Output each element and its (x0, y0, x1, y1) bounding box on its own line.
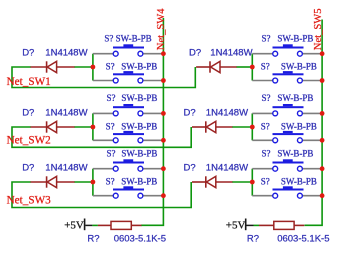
wire Net_SW3 left segment (12, 182, 191, 208)
wire row3 left diode to bracket (75, 181, 93, 183)
net label Net_SW1 (7, 76, 51, 88)
switch S? row2 right upper pin wires (252, 112, 322, 114)
label S? SW-B-PB row1 left upper (104, 33, 151, 43)
wire +5V to resistor left (85, 224, 98, 226)
svg-text:S?: S? (106, 121, 115, 131)
svg-text:SW-B-PB: SW-B-PB (277, 33, 313, 43)
switch S? row2 right upper (SW-B-PB) (273, 104, 304, 116)
svg-text:S?: S? (106, 177, 115, 187)
label D? row1 left (22, 47, 34, 58)
switch S? row2 right lower (SW-B-PB) (273, 131, 304, 143)
switch S? row2 left upper pin wires (93, 112, 163, 114)
switch S? row2 right lower pin wires (252, 139, 322, 141)
wire Net_SW2 left segment (12, 127, 191, 147)
junction row1 left lower on rail (161, 78, 166, 83)
switch S? row3 left upper pin wires (93, 168, 163, 170)
switch S? row1 right lower (SW-B-PB) (273, 71, 304, 83)
svg-text:D?: D? (22, 107, 34, 118)
value 1N4148W row2 right (206, 107, 248, 118)
label S? SW-B-PB row3 left lower (106, 177, 158, 187)
svg-text:S?: S? (261, 62, 270, 72)
svg-text:SW-B-PB: SW-B-PB (277, 93, 313, 103)
switch S? row1 right upper pin wires (252, 53, 322, 55)
switch S? row1 left upper (SW-B-PB) (113, 44, 144, 56)
junction row2 left bracket (91, 125, 96, 130)
diode D? row2 right pin wires (192, 126, 233, 128)
switch S? row3 right lower (SW-B-PB) (273, 186, 304, 198)
wire row2 right bracket vertical (251, 113, 253, 140)
svg-text:SW-B-PB: SW-B-PB (281, 177, 317, 187)
label D? row3 right (184, 162, 196, 173)
svg-text:1N4148W: 1N4148W (45, 107, 87, 118)
svg-text:S?: S? (261, 177, 270, 187)
label S? SW-B-PB row3 left upper (107, 148, 158, 158)
resistor R? right pin wires (259, 224, 304, 226)
svg-text:D?: D? (22, 47, 34, 58)
label D? row2 right (184, 107, 196, 118)
wire row1 left diode to bracket (75, 66, 93, 68)
label D? row3 left (22, 162, 34, 173)
label R? left (87, 233, 99, 244)
wire Net_SW1 left segment (12, 67, 195, 88)
wire row1 right diode to bracket (237, 66, 253, 68)
svg-text:SW-B-PB: SW-B-PB (281, 62, 317, 72)
svg-text:Net_SW5: Net_SW5 (313, 8, 324, 50)
junction row3 right upper on rail (320, 166, 325, 171)
svg-text:SW-B-PB: SW-B-PB (121, 148, 157, 158)
value 1N4148W row3 right (206, 162, 248, 173)
net label Net_SW3 (7, 194, 52, 206)
diode D? row3 left pin wires (31, 181, 75, 183)
junction row1 left upper on rail (161, 51, 166, 56)
svg-text:D?: D? (189, 47, 201, 58)
svg-text:SW-B-PB: SW-B-PB (121, 62, 157, 72)
junction row1 right upper on rail (320, 51, 325, 56)
svg-text:Net_SW2: Net_SW2 (7, 135, 51, 147)
label S? SW-B-PB row2 right upper (262, 93, 314, 103)
value 1N4148W row1 left (45, 47, 87, 58)
switch S? row3 right upper (SW-B-PB) (273, 159, 304, 171)
value 1N4148W row3 left (45, 162, 87, 173)
value 0603-5.1K-5 left (114, 233, 166, 244)
power port +5V right (226, 219, 246, 232)
svg-text:S?: S? (106, 62, 115, 72)
label S? SW-B-PB row2 left upper (107, 93, 158, 103)
svg-text:D?: D? (22, 162, 34, 173)
junction row2 right upper on rail (320, 111, 325, 116)
value 1N4148W row1 right (210, 47, 252, 58)
svg-text:1N4148W: 1N4148W (45, 47, 87, 58)
svg-text:SW-B-PB: SW-B-PB (121, 93, 157, 103)
svg-text:S?: S? (262, 33, 271, 43)
svg-text:D?: D? (184, 162, 196, 173)
resistor R? right (0603-5.1K-5) (274, 221, 294, 229)
label S? SW-B-PB row3 right upper (262, 148, 314, 158)
diode D? row1 left (1N4148W) (47, 61, 57, 72)
switch S? row3 left lower (SW-B-PB) (113, 186, 144, 198)
svg-text:Net_SW3: Net_SW3 (7, 194, 52, 206)
svg-text:S?: S? (107, 148, 116, 158)
svg-text:S?: S? (107, 93, 116, 103)
diode D? row1 right (1N4148W) (210, 61, 220, 72)
junction row2 left upper on rail (161, 111, 166, 116)
wire net Net_SW4 vertical rail (141, 18, 163, 225)
wire row3 right diode to bracket (232, 181, 252, 183)
label S? SW-B-PB row2 left lower (106, 121, 158, 131)
diode D? row3 right (1N4148W) (206, 176, 216, 187)
wire row2 left bracket vertical (92, 113, 94, 140)
switch S? row2 left upper (SW-B-PB) (113, 104, 144, 116)
svg-text:1N4148W: 1N4148W (210, 47, 252, 58)
diode D? row3 left (1N4148W) (47, 176, 57, 187)
wire +5V to resistor right (247, 224, 260, 226)
junction row3 left lower on rail (161, 193, 166, 198)
net label Net_SW2 (7, 135, 51, 147)
wire row1 left bracket vertical (92, 54, 94, 81)
svg-text:S? SW-B-PB: S? SW-B-PB (104, 33, 151, 43)
svg-text:SW-B-PB: SW-B-PB (277, 148, 313, 158)
switch S? row1 left lower (SW-B-PB) (113, 71, 144, 83)
svg-text:0603-5.1K-5: 0603-5.1K-5 (114, 233, 166, 244)
junction row1 right lower on rail (320, 78, 325, 83)
wire row3 left bracket vertical (92, 169, 94, 196)
label D? row2 left (22, 107, 34, 118)
wire row1 right bracket vertical (251, 54, 253, 81)
svg-text:S?: S? (261, 121, 270, 131)
label S? SW-B-PB row1 right upper (262, 33, 314, 43)
svg-text:SW-B-PB: SW-B-PB (121, 121, 157, 131)
junction row1 left bracket (91, 65, 96, 70)
svg-text:1N4148W: 1N4148W (45, 162, 87, 173)
diode D? row1 right pin wires (196, 66, 237, 68)
switch S? row2 left lower (SW-B-PB) (113, 131, 144, 143)
switch S? row3 right upper pin wires (252, 168, 322, 170)
switch S? row3 right lower pin wires (252, 195, 322, 197)
svg-text:1N4148W: 1N4148W (206, 107, 248, 118)
junction row3 right bracket (250, 180, 255, 185)
svg-text:R?: R? (87, 233, 99, 244)
svg-text:D?: D? (184, 107, 196, 118)
wire row2 left diode to bracket (75, 126, 93, 128)
svg-text:+5V: +5V (226, 219, 246, 231)
power port +5V left (64, 219, 84, 232)
diode D? row2 right (1N4148W) (206, 121, 216, 132)
label S? SW-B-PB row1 left lower (106, 62, 158, 72)
resistor R? left pin wires (98, 224, 142, 226)
switch S? row3 left upper (SW-B-PB) (113, 159, 144, 171)
svg-text:SW-B-PB: SW-B-PB (281, 121, 317, 131)
net label Net_SW4 (156, 8, 167, 50)
junction row2 right bracket (250, 125, 255, 130)
junction row3 left bracket (91, 180, 96, 185)
switch S? row1 right upper (SW-B-PB) (273, 44, 304, 56)
net label Net_SW5 (313, 8, 324, 50)
value 1N4148W row2 left (45, 107, 87, 118)
diode D? row1 left pin wires (31, 66, 75, 68)
svg-text:+5V: +5V (64, 219, 84, 231)
svg-text:S?: S? (262, 93, 271, 103)
value 0603-5.1K-5 right (277, 233, 329, 244)
label D? row1 right (189, 47, 201, 58)
junction row2 right lower on rail (320, 138, 325, 143)
label S? SW-B-PB row2 right lower (261, 121, 317, 131)
switch S? row3 left lower pin wires (93, 195, 163, 197)
svg-text:Net_SW4: Net_SW4 (156, 8, 167, 50)
diode D? row3 right pin wires (192, 181, 233, 183)
wire row2 right diode to bracket (232, 126, 252, 128)
diode D? row2 left pin wires (31, 126, 75, 128)
label R? right (247, 233, 259, 244)
wire net Net_SW5 vertical rail (305, 20, 323, 226)
svg-text:Net_SW1: Net_SW1 (7, 76, 51, 88)
resistor R? left (0603-5.1K-5) (111, 221, 131, 229)
switch S? row1 left lower pin wires (93, 80, 163, 82)
junction row3 left upper on rail (161, 166, 166, 171)
svg-text:SW-B-PB: SW-B-PB (121, 177, 157, 187)
junction row2 left lower on rail (161, 138, 166, 143)
switch S? row1 right lower pin wires (252, 80, 322, 82)
svg-text:0603-5.1K-5: 0603-5.1K-5 (277, 233, 329, 244)
label S? SW-B-PB row3 right lower (261, 177, 317, 187)
junction row1 right bracket (250, 65, 255, 70)
svg-text:1N4148W: 1N4148W (206, 162, 248, 173)
wire row3 right bracket vertical (251, 169, 253, 196)
label S? SW-B-PB row1 right lower (261, 62, 317, 72)
svg-text:S?: S? (262, 148, 271, 158)
diode D? row2 left (1N4148W) (47, 121, 57, 132)
svg-text:R?: R? (247, 233, 259, 244)
switch S? row1 left upper pin wires (93, 53, 163, 55)
junction row3 right lower on rail (320, 193, 325, 198)
switch S? row2 left lower pin wires (93, 139, 163, 141)
